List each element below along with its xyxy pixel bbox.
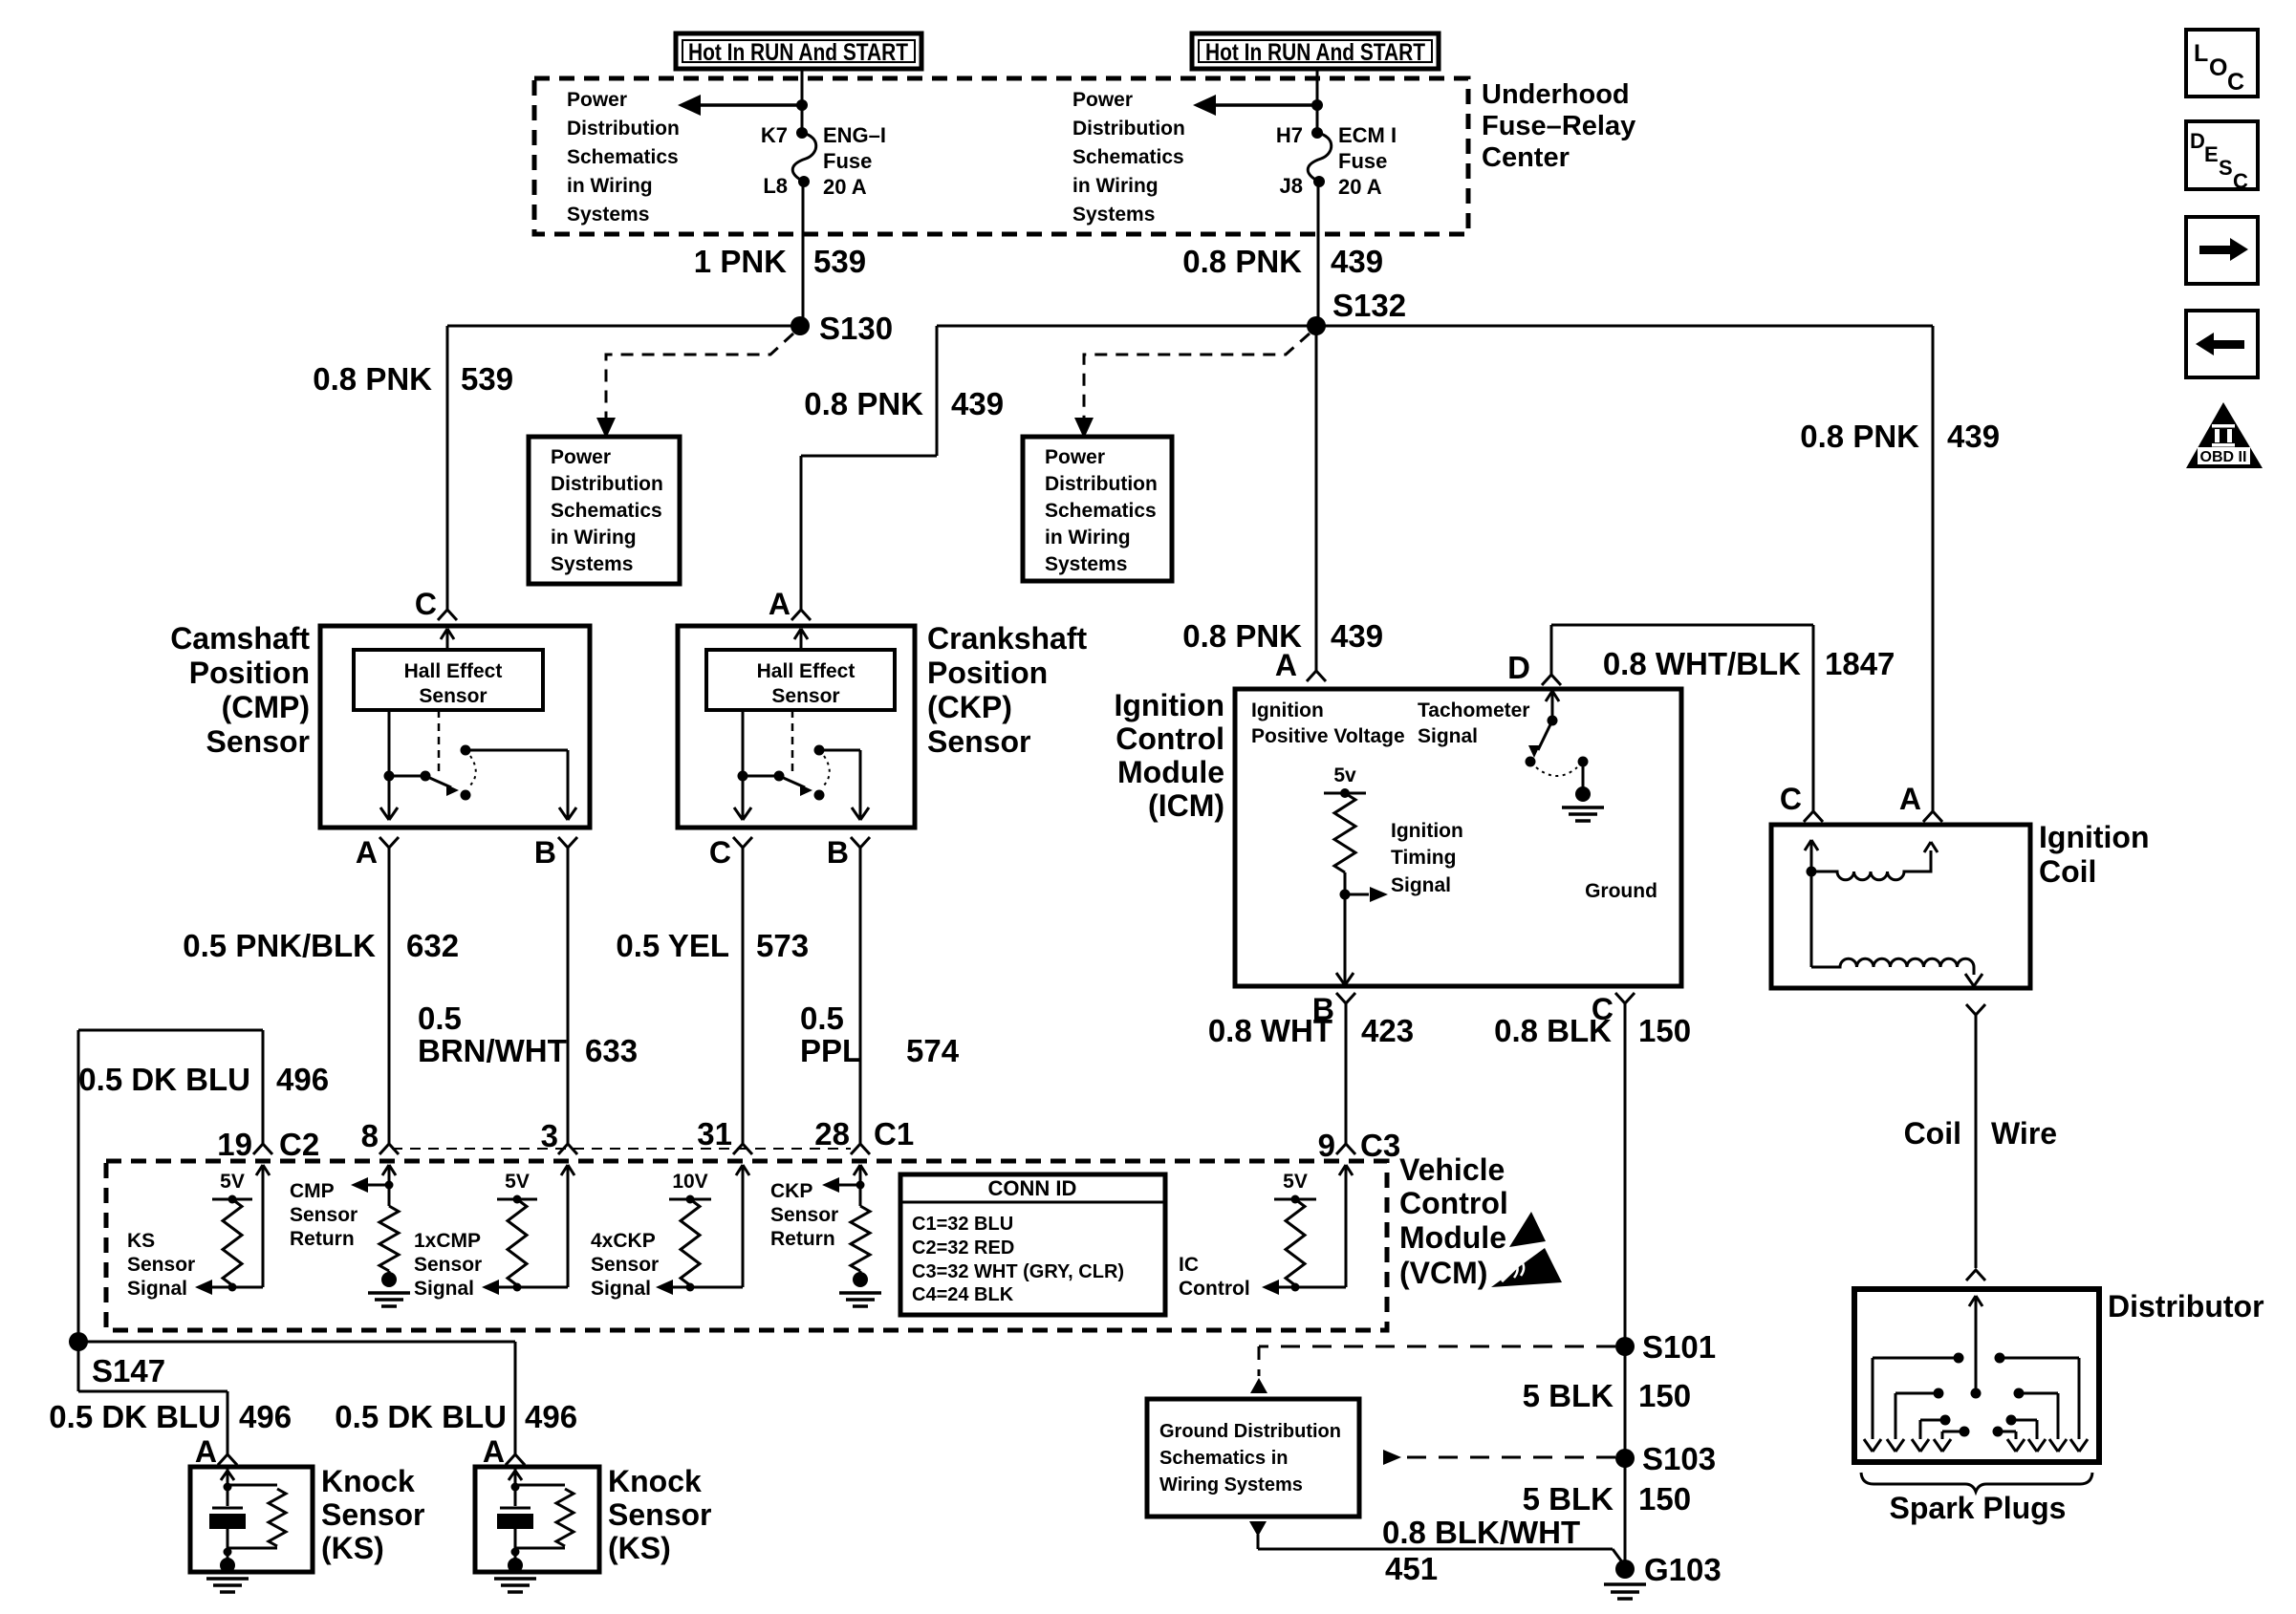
svg-text:0.8 PNK: 0.8 PNK [313,361,432,397]
text CKP Sensor Return [770,1180,838,1250]
distributor wire to spark plug 5 [1995,1353,2089,1453]
svg-text:OBD II: OBD II [2200,449,2247,465]
svg-text:(KS): (KS) [608,1531,671,1565]
label Knock Sensor (KS) 2 [608,1464,711,1565]
svg-text:Schematics: Schematics [1072,146,1184,168]
arrow into Hall sensor (CMP) [441,629,454,650]
node S101 [1615,1329,1716,1365]
text Ignition Positive Voltage [1251,699,1405,747]
CKP internal dashed control wire [791,710,794,775]
svg-text:Schematics: Schematics [1045,500,1157,522]
svg-text:Module: Module [1399,1220,1506,1255]
wire label 1 PNK 539 [694,244,866,279]
svg-text:in Wiring: in Wiring [1045,527,1131,549]
pin label J8 [1280,174,1303,198]
connector C below CKP [709,835,752,870]
svg-text:28: 28 [814,1116,850,1151]
svg-text:PPL: PPL [800,1033,861,1068]
svg-text:0.8 WHT: 0.8 WHT [1208,1013,1332,1048]
label Vehicle Control Module (VCM) [1399,1152,1508,1290]
svg-text:10V: 10V [672,1171,707,1193]
svg-text:Sensor: Sensor [127,1254,195,1276]
text KS Sensor Signal [127,1230,195,1300]
svg-text:19: 19 [217,1127,252,1162]
resistor IC control (VCM) [1286,1199,1305,1292]
svg-text:Ignition: Ignition [1114,688,1224,722]
svg-text:Schematics in: Schematics in [1159,1448,1289,1469]
ground symbol CKP return [839,1271,881,1306]
svg-text:Sensor: Sensor [608,1497,711,1532]
svg-text:B: B [827,835,849,870]
svg-text:Ground Distribution: Ground Distribution [1159,1421,1341,1442]
dashed wire S132 to power distribution reference [1074,334,1310,439]
svg-text:Ignition: Ignition [1251,699,1324,721]
wire label 0.8 PNK 439 (coil feed) [1800,419,2000,454]
svg-text:5 BLK: 5 BLK [1523,1378,1614,1413]
svg-text:ENG–I: ENG–I [823,123,886,147]
connector A at ICM [1275,648,1326,682]
svg-text:451: 451 [1385,1551,1438,1586]
svg-text:C3: C3 [1360,1128,1400,1163]
ICM output arrow to pin B [1336,894,1354,985]
CMP output arrow to pin A [380,776,398,820]
svg-text:Sensor: Sensor [321,1497,424,1532]
KS signal wire and arrow [195,1187,263,1295]
label Distributor [2108,1289,2264,1323]
CMP internal output wire [388,710,391,776]
ground symbol CMP return [368,1271,410,1306]
label Ignition Coil [2039,820,2150,889]
svg-text:Fuse: Fuse [1338,149,1387,173]
svg-text:Hall Effect: Hall Effect [404,660,503,682]
Hall Effect Sensor box (CKP) [706,650,895,710]
distributor wire to spark plug 6 [2014,1388,2068,1453]
wire 0.8 BLK 150 ICM C to S101 [1624,1003,1627,1346]
icon LOC [2186,30,2258,97]
svg-text:Wiring Systems: Wiring Systems [1159,1474,1303,1496]
distributor wire to spark plug 4 [1934,1427,1970,1453]
text Ground (ICM) [1585,880,1657,902]
svg-text:CMP: CMP [290,1180,335,1202]
svg-text:439: 439 [1331,244,1383,279]
pin number 3 [541,1118,558,1153]
Ignition Coil box [1771,825,2030,988]
wire 0.8 PNK 439 S132 trunk to CKP pin A [801,326,937,610]
label Ignition Control Module (ICM) [1114,688,1224,823]
resistor CKP return (VCM) [851,1185,870,1271]
wire from left feed box to fuse ENG-I [801,69,804,133]
IC control wire and arrow [1262,1187,1346,1295]
svg-text:0.8 BLK/WHT: 0.8 BLK/WHT [1382,1515,1580,1550]
svg-text:Crankshaft: Crankshaft [927,621,1088,656]
svg-text:C: C [2233,169,2248,193]
wire label 0.8 PNK 439 (ICM feed) [1182,618,1383,654]
text 4xCKP Sensor Signal [591,1230,659,1300]
svg-text:20 A: 20 A [1338,175,1382,199]
svg-text:0.5 DK BLU: 0.5 DK BLU [49,1399,221,1434]
svg-text:Knock: Knock [321,1464,415,1498]
pin 19 connector C2 at VCM [217,1127,319,1162]
svg-text:A: A [195,1434,217,1469]
svg-text:ECM I: ECM I [1338,123,1397,147]
svg-text:CONN ID: CONN ID [988,1176,1077,1200]
svg-text:1847: 1847 [1825,646,1895,681]
text Tachometer Signal [1418,699,1529,747]
svg-text:573: 573 [756,928,809,963]
wire label 0.8 PNK 439 (top) [1182,244,1383,279]
arrow into Hall sensor (CKP) [794,629,808,650]
wire 5 BLK 150 S101 to S103 [1624,1346,1627,1458]
svg-text:in Wiring: in Wiring [567,175,653,197]
reference box Power Distribution Schematics (left) [529,437,680,584]
connector below ignition coil [1966,1004,1985,1015]
CONN ID table box [900,1174,1165,1315]
tachometer switch (ICM) [1526,691,1589,776]
svg-text:Underhood: Underhood [1482,79,1630,110]
svg-text:Center: Center [1482,142,1570,173]
wire label 0.5 DK BLU 496 (KS1) [49,1399,292,1434]
CKP output arrow to pin C [734,776,751,820]
svg-text:Coil: Coil [2039,854,2096,889]
wire 0.5 BRN/WHT 633 CMP B to VCM pin 3 [567,848,570,1144]
wire 0.8 BLK/WHT 451 [1258,1535,1623,1563]
svg-text:in Wiring: in Wiring [1072,175,1159,197]
svg-text:Distribution: Distribution [551,473,663,495]
svg-text:Hall Effect: Hall Effect [757,660,856,682]
svg-text:A: A [356,835,378,870]
text Power Distribution Schematics in Wiring Systems (right) [1072,89,1185,226]
svg-text:A: A [483,1434,505,1469]
text CONN ID header [988,1176,1077,1200]
svg-text:Signal: Signal [1418,725,1478,747]
distributor wire to spark plug 8 [1993,1427,2025,1453]
connector C at ignition coil [1780,782,1823,822]
knock sensor 1 element [206,1469,286,1592]
svg-text:Return: Return [290,1228,355,1250]
connector C at CMP sensor [415,587,457,621]
CKP sensor box [678,626,915,828]
svg-text:0.8 PNK: 0.8 PNK [1800,419,1919,454]
coil wire to distributor [1975,1015,1978,1268]
ICM timing signal junction [1340,872,1351,900]
svg-text:150: 150 [1638,1378,1691,1413]
svg-text:Sensor: Sensor [770,1204,838,1226]
svg-text:0.5 DK BLU: 0.5 DK BLU [335,1399,507,1434]
wire label 0.5 DK BLU 496 (loop) [78,1062,329,1097]
svg-text:Sensor: Sensor [414,1254,482,1276]
connector A at CKP sensor [769,587,811,621]
connector A at knock sensor 1 [195,1434,237,1469]
svg-text:(ICM): (ICM) [1148,788,1224,823]
svg-text:C: C [2227,69,2244,96]
value label ECM I Fuse 20 A [1338,123,1397,199]
svg-text:D: D [1507,650,1530,685]
wire 0.5 YEL 573 CKP C to VCM pin 31 [742,848,745,1144]
IC control pullup 5V [1274,1171,1316,1204]
ground G103 [1604,1552,1722,1599]
CMP internal dashed control wire [438,710,441,775]
connector at distributor [1966,1270,1985,1280]
svg-text:439: 439 [951,386,1004,421]
spark plugs brace [1861,1473,2092,1492]
svg-text:Systems: Systems [1072,204,1155,226]
connector C below ICM [1592,992,1635,1026]
CKP internal output wire [742,710,745,776]
connector A below CMP [356,835,399,870]
svg-text:496: 496 [525,1399,577,1434]
svg-text:IC: IC [1179,1254,1199,1276]
resistor KS signal (VCM) [223,1199,242,1292]
svg-text:423: 423 [1361,1013,1414,1048]
wire fuse ENG-I to S130 (1 PNK 539) [802,182,805,326]
reference box Power Distribution Schematics (right) [1023,437,1172,581]
svg-text:Schematics: Schematics [551,500,662,522]
connector A at knock sensor 2 [483,1434,525,1469]
feed box Hot In RUN And START (left) [676,33,921,69]
svg-text:Position: Position [189,656,310,690]
svg-text:O: O [2209,54,2227,81]
connector B below CKP [827,835,870,870]
svg-text:C: C [709,835,731,870]
svg-text:Distribution: Distribution [1072,118,1185,140]
wire S130 trunk to CMP drop [447,325,800,328]
svg-text:Sensor: Sensor [591,1254,659,1276]
reference box Ground Distribution Schematics [1147,1399,1359,1517]
pin number 9 connector C3 [1318,1128,1401,1163]
svg-text:5v: 5v [1333,764,1356,786]
svg-text:Knock: Knock [608,1464,702,1498]
svg-text:S132: S132 [1332,288,1406,323]
svg-text:Control: Control [1116,721,1224,756]
svg-text:539: 539 [813,244,866,279]
node S130 [791,311,893,346]
svg-text:4xCKP: 4xCKP [591,1230,656,1252]
svg-text:496: 496 [276,1062,329,1097]
svg-text:8: 8 [361,1118,379,1153]
CMP sensor return arrow [351,1177,394,1193]
svg-text:31: 31 [697,1116,732,1151]
svg-text:Control: Control [1179,1278,1250,1300]
1xCMP signal pullup 5V [497,1171,537,1204]
svg-text:Sensor: Sensor [206,724,310,759]
svg-text:K7: K7 [761,123,788,147]
svg-text:539: 539 [461,361,513,397]
wire from right feed box to fuse ECM I [1316,69,1319,133]
wire 0.8 PNK 439 S132 to ignition coil pin A [1316,326,1933,811]
svg-text:Power: Power [1072,89,1133,111]
junction dot on ECM I feed [1311,99,1323,111]
node S132 [1307,288,1406,335]
pin label K7 [761,123,788,147]
Distributor box [1854,1289,2099,1462]
svg-text:Signal: Signal [127,1278,187,1300]
wire S132 trunk to CKP drop [937,325,1316,328]
svg-text:Module: Module [1117,755,1224,789]
ground symbol tachometer switch [1562,762,1604,821]
svg-text:S147: S147 [92,1353,165,1388]
ESD sensitivity symbol [1491,1212,1562,1287]
CMP internal switch [384,745,476,801]
dashed wire S101 to ground distribution reference [1250,1346,1615,1393]
CKP internal switch [738,745,830,801]
wire label 0.8 WHT 423 [1208,1013,1414,1048]
svg-text:J8: J8 [1280,174,1303,198]
svg-text:439: 439 [1947,419,2000,454]
text IC Control [1179,1254,1250,1300]
svg-text:0.5: 0.5 [800,1001,844,1036]
connector C1 label [874,1116,914,1151]
svg-text:Ignition: Ignition [1391,820,1463,842]
svg-text:Position: Position [927,656,1048,690]
distributor wire to spark plug 2 [1887,1388,1944,1453]
svg-text:Hot In RUN And START: Hot In RUN And START [688,39,908,66]
svg-text:496: 496 [239,1399,292,1434]
wire 0.5 PNK/BLK 632 CMP A to VCM pin 8 [388,848,391,1144]
pin number 31 [697,1116,732,1151]
svg-text:Positive Voltage: Positive Voltage [1251,725,1405,747]
svg-text:D: D [2190,129,2205,153]
fuse ECM I H7/J8 [1308,127,1332,187]
KS sensor signal pullup 5V [212,1171,252,1204]
svg-text:Sensor: Sensor [290,1204,357,1226]
svg-text:5 BLK: 5 BLK [1523,1481,1614,1517]
svg-text:Signal: Signal [591,1278,651,1300]
VCM pin 28 entry [851,1144,870,1187]
coil secondary output arrow [1965,974,1982,986]
svg-text:Camshaft: Camshaft [170,621,310,656]
svg-text:5V: 5V [220,1171,245,1193]
VCM pin 8 entry [379,1144,399,1187]
feed box Hot In RUN And START (right) [1192,33,1439,69]
svg-text:S130: S130 [819,311,893,346]
svg-text:Vehicle: Vehicle [1399,1152,1505,1187]
svg-text:Sensor: Sensor [927,724,1030,759]
svg-text:H7: H7 [1276,123,1303,147]
CKP sensor return arrow [822,1177,865,1193]
label Knock Sensor (KS) 1 [321,1464,424,1565]
dashed wire S103 to ground distribution reference [1383,1450,1615,1465]
svg-text:Coil: Coil [1904,1116,1961,1151]
svg-text:A: A [1899,782,1921,816]
svg-text:S103: S103 [1642,1441,1716,1476]
arrow to power distribution (right) [1193,95,1317,116]
svg-text:Fuse: Fuse [823,149,872,173]
ICM 5v supply [1324,764,1366,798]
wire 5 BLK 150 S103 to G103 [1624,1458,1627,1569]
coil primary input arrow [1805,840,1818,877]
svg-text:20 A: 20 A [823,175,867,199]
4xCKP signal pullup 10V [669,1171,711,1204]
wire label 0.5 PPL 574 [800,1001,960,1068]
svg-text:Fuse–Relay: Fuse–Relay [1482,111,1635,141]
CMP output arrow to pin B [559,807,576,820]
svg-text:A: A [769,587,791,621]
CMP internal wire to pin B [466,750,568,807]
wire label 0.5 PNK/BLK 632 [183,928,459,963]
fuse ENG-I K7/L8 [792,127,816,187]
svg-text:(KS): (KS) [321,1531,384,1565]
svg-text:0.8 WHT/BLK: 0.8 WHT/BLK [1603,646,1801,681]
VCM pin 31 entry [733,1144,752,1187]
svg-text:Distributor: Distributor [2108,1289,2264,1323]
svg-text:Ground: Ground [1585,880,1657,902]
svg-text:1 PNK: 1 PNK [694,244,787,279]
icon forward arrow [2186,217,2258,284]
resistor CMP return (VCM) [379,1185,399,1271]
svg-text:Signal: Signal [414,1278,474,1300]
icon OBD II triangle [2186,402,2263,468]
svg-text:(CMP): (CMP) [222,690,310,724]
label Coil Wire [1904,1116,2058,1151]
svg-text:(CKP): (CKP) [927,690,1012,724]
svg-text:in Wiring: in Wiring [551,527,637,549]
wire 0.8 WHT 423 ICM B to VCM pin 9 [1345,1003,1348,1144]
VCM pin 9 entry [1336,1144,1355,1187]
svg-text:0.5 YEL: 0.5 YEL [616,928,729,963]
svg-text:Sensor: Sensor [771,685,839,707]
svg-text:Systems: Systems [1045,553,1127,575]
svg-text:Sensor: Sensor [419,685,487,707]
svg-text:Power: Power [1045,446,1105,468]
svg-text:A: A [1275,648,1297,682]
svg-text:Power: Power [551,446,611,468]
text connector id list [912,1214,1124,1305]
svg-text:Control: Control [1399,1186,1508,1220]
svg-text:0.5: 0.5 [418,1001,462,1036]
label Underhood Fuse-Relay Center [1482,79,1635,173]
knock sensor 2 element [494,1469,574,1592]
resistor 4xCKP signal (VCM) [681,1199,700,1292]
svg-text:C4=24 BLK: C4=24 BLK [912,1284,1014,1305]
svg-text:0.8 PNK: 0.8 PNK [804,386,923,421]
text Ignition Timing Signal [1391,820,1463,896]
Ignition Control Module box [1235,689,1681,986]
distributor wire to spark plug 1 [1864,1353,1964,1453]
svg-text:0.8 PNK: 0.8 PNK [1182,244,1302,279]
wire 0.5 DK BLU 496 S147 to knock sensor 1 [78,1342,227,1454]
text 1xCMP Sensor Signal [414,1230,482,1300]
label Camshaft Position (CMP) Sensor [170,621,310,759]
value label ENG-I Fuse 20 A [823,123,886,199]
text CMP Sensor Return [290,1180,357,1250]
svg-text:BRN/WHT: BRN/WHT [418,1033,567,1068]
wire label 0.8 PNK 439 (CKP feed) [804,386,1004,421]
svg-text:C: C [1780,782,1802,816]
svg-text:C1=32 BLU: C1=32 BLU [912,1214,1013,1235]
svg-text:Power: Power [567,89,627,111]
Vehicle Control Module dashed box [106,1161,1387,1330]
node S103 [1615,1441,1716,1476]
connector B below ICM [1312,992,1355,1026]
svg-text:5V: 5V [1283,1171,1308,1193]
pin label L8 [763,174,788,198]
svg-text:B: B [534,835,556,870]
connector A at ignition coil [1899,782,1942,822]
svg-text:Distribution: Distribution [567,118,680,140]
wire label 0.5 YEL 573 [616,928,809,963]
svg-text:E: E [2204,142,2219,166]
pin label H7 [1276,123,1303,147]
svg-text:Return: Return [770,1228,835,1250]
svg-text:Timing: Timing [1391,847,1456,869]
text Power Distribution Schematics in Wiring Systems (left) [567,89,680,226]
1xCMP signal wire and arrow [482,1187,568,1295]
svg-text:C2=32 RED: C2=32 RED [912,1237,1014,1259]
svg-text:CKP: CKP [770,1180,812,1202]
wire label 0.5 BRN/WHT 633 [418,1001,638,1068]
svg-text:Systems: Systems [551,553,633,575]
arrow ignition timing signal [1345,887,1388,902]
